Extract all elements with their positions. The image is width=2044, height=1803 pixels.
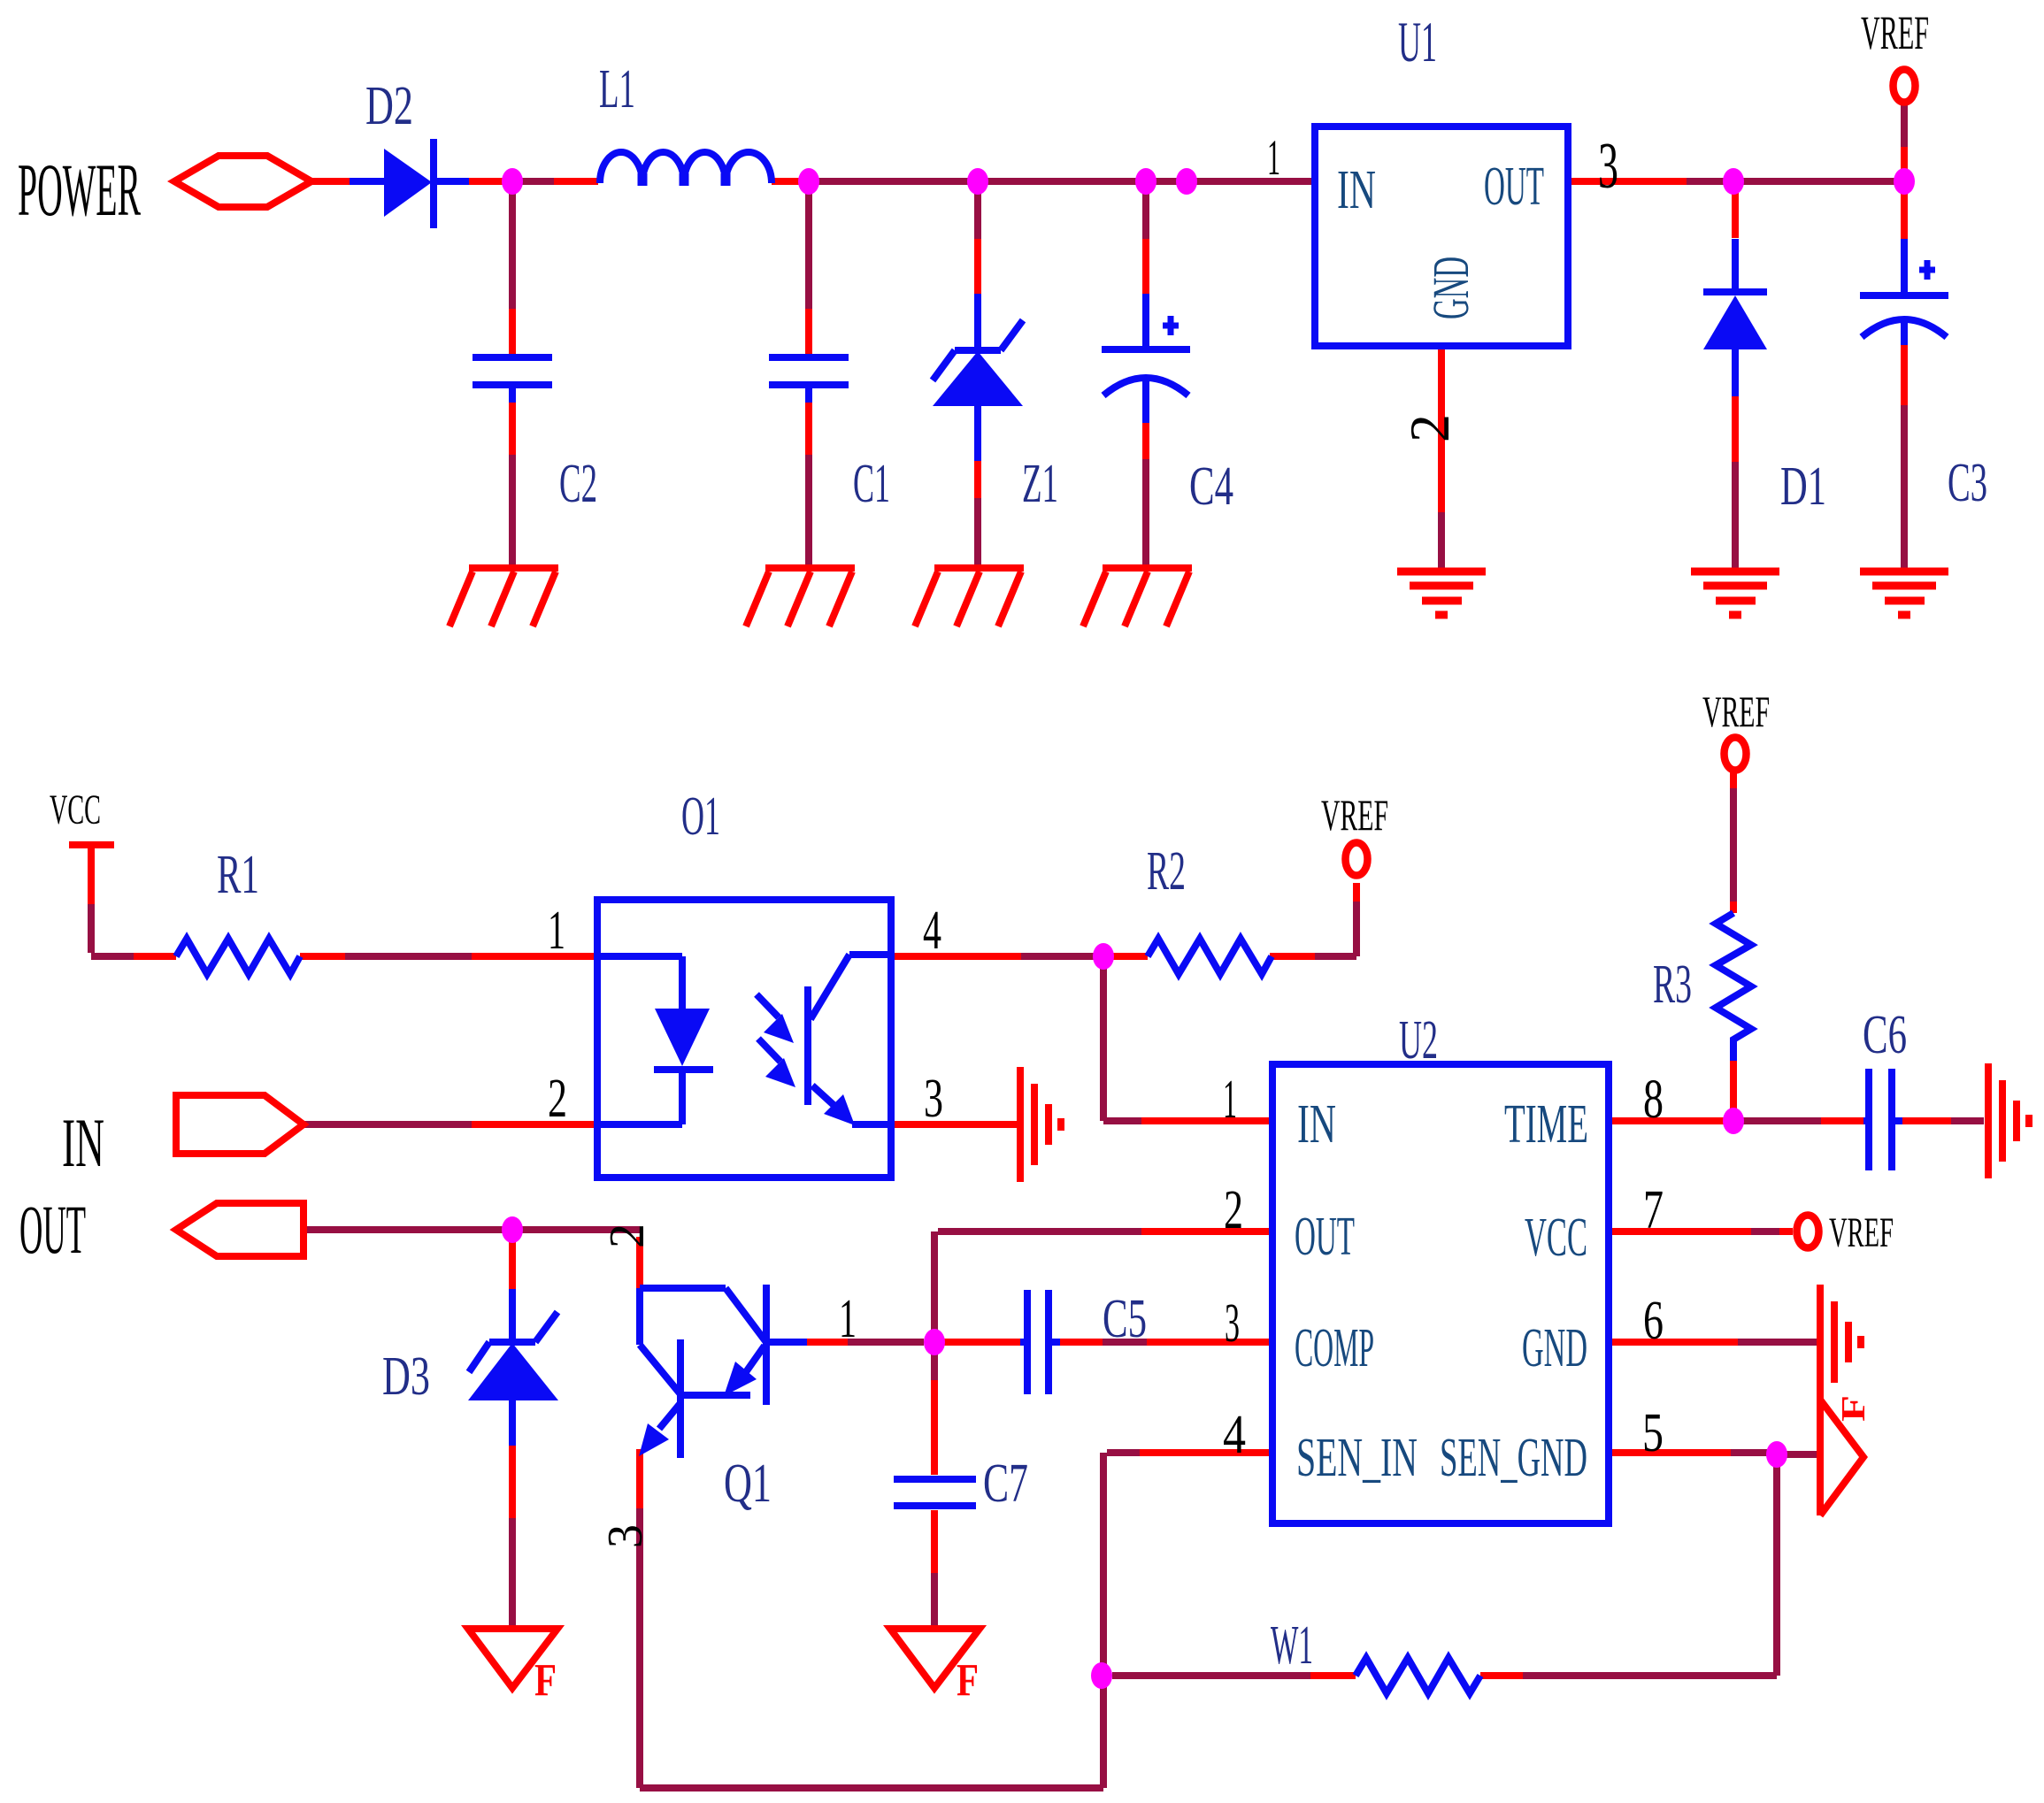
svg-text:IN: IN xyxy=(1297,1094,1336,1155)
svg-text:VREF: VREF xyxy=(1829,1209,1894,1256)
svg-text:R1: R1 xyxy=(217,845,259,905)
svg-text:1: 1 xyxy=(839,1289,857,1349)
svg-text:U1: U1 xyxy=(1398,11,1437,74)
svg-text:IN: IN xyxy=(62,1104,104,1181)
svg-text:C4: C4 xyxy=(1189,457,1233,517)
svg-text:VREF: VREF xyxy=(1321,790,1388,840)
svg-text:F: F xyxy=(534,1655,557,1706)
svg-text:1: 1 xyxy=(1223,1070,1237,1130)
svg-text:OUT: OUT xyxy=(19,1191,86,1268)
svg-text:D3: D3 xyxy=(382,1346,430,1407)
svg-text:D2: D2 xyxy=(365,76,413,136)
svg-text:R3: R3 xyxy=(1653,955,1692,1015)
svg-text:TIME: TIME xyxy=(1504,1094,1588,1155)
svg-text:VREF: VREF xyxy=(1861,6,1929,59)
svg-text:3: 3 xyxy=(924,1069,943,1129)
svg-text:R2: R2 xyxy=(1147,841,1186,901)
svg-text:4: 4 xyxy=(923,901,941,961)
svg-text:D1: D1 xyxy=(1780,457,1826,517)
svg-text:F: F xyxy=(1835,1395,1872,1422)
svg-text:VCC: VCC xyxy=(50,786,101,833)
svg-text:POWER: POWER xyxy=(18,149,141,232)
svg-text:2: 2 xyxy=(1224,1180,1243,1240)
svg-text:3: 3 xyxy=(1598,130,1618,203)
svg-text:C7: C7 xyxy=(983,1454,1028,1514)
svg-text:C2: C2 xyxy=(559,454,597,514)
svg-text:3: 3 xyxy=(1225,1293,1240,1354)
svg-text:O1: O1 xyxy=(681,786,720,847)
svg-text:Z1: Z1 xyxy=(1022,454,1058,514)
svg-text:4: 4 xyxy=(1223,1405,1246,1465)
svg-text:GND: GND xyxy=(1422,257,1479,319)
svg-text:IN: IN xyxy=(1337,160,1376,220)
svg-text:C6: C6 xyxy=(1863,1005,1907,1065)
svg-text:8: 8 xyxy=(1643,1070,1664,1130)
svg-text:W1: W1 xyxy=(1271,1615,1313,1676)
svg-text:COMP: COMP xyxy=(1295,1318,1374,1378)
svg-text:7: 7 xyxy=(1643,1180,1664,1240)
svg-text:VCC: VCC xyxy=(1525,1208,1587,1268)
svg-text:VREF: VREF xyxy=(1702,687,1770,736)
svg-text:GND: GND xyxy=(1522,1318,1587,1378)
svg-text:SEN_GND: SEN_GND xyxy=(1440,1428,1587,1488)
svg-text:U2: U2 xyxy=(1399,1010,1438,1070)
svg-text:F: F xyxy=(957,1655,979,1706)
svg-text:OUT: OUT xyxy=(1295,1207,1355,1267)
svg-text:1: 1 xyxy=(548,901,565,961)
svg-text:5: 5 xyxy=(1642,1403,1664,1463)
svg-text:6: 6 xyxy=(1643,1291,1664,1351)
svg-text:C3: C3 xyxy=(1948,453,1987,513)
svg-text:Q1: Q1 xyxy=(724,1454,772,1514)
svg-text:OUT: OUT xyxy=(1484,157,1544,217)
svg-text:1: 1 xyxy=(1267,130,1280,186)
svg-text:3: 3 xyxy=(598,1524,653,1548)
svg-text:2: 2 xyxy=(548,1069,567,1129)
svg-text:2: 2 xyxy=(1399,414,1461,442)
svg-text:C1: C1 xyxy=(853,454,890,514)
svg-text:2: 2 xyxy=(600,1224,655,1248)
svg-text:L1: L1 xyxy=(599,59,635,119)
svg-text:C5: C5 xyxy=(1103,1289,1147,1349)
svg-text:SEN_IN: SEN_IN xyxy=(1296,1428,1418,1488)
